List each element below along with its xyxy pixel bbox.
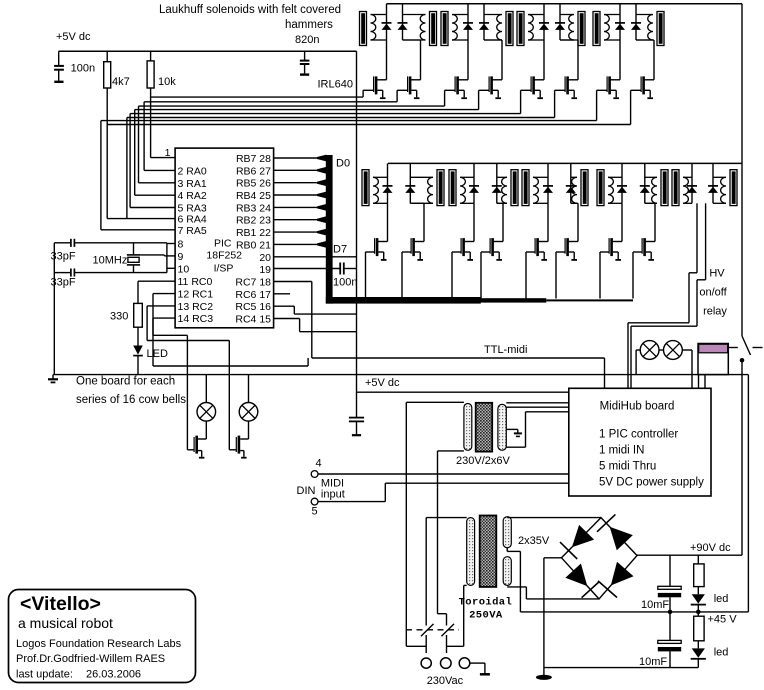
svg-text:IRL640: IRL640	[318, 79, 353, 91]
svg-text:5: 5	[312, 506, 318, 518]
svg-text:One board for each: One board for each	[76, 376, 175, 388]
solenoid unit 1 row 2 - right coil	[428, 177, 433, 203]
relay switch blade	[742, 336, 751, 355]
svg-text:7 RA5: 7 RA5	[178, 225, 207, 237]
wire row2 unit 1 left drop	[387, 203, 389, 241]
svg-text:3 RA1: 3 RA1	[178, 178, 207, 190]
diode bridge bottom-right	[611, 562, 634, 586]
svg-text:RB1 22: RB1 22	[236, 227, 271, 239]
wire pin20 VDD to +5V	[274, 256, 357, 258]
wire RB0 pin 21 to data bus	[274, 243, 318, 245]
svg-text:20: 20	[259, 252, 271, 264]
svg-text:1 PIC controller: 1 PIC controller	[599, 429, 678, 441]
switch coupling dashes	[406, 629, 459, 631]
wire T2 primary bottom	[464, 584, 467, 586]
wire unit 2 left drop	[467, 40, 469, 80]
solenoid pair unit 1 row 1 - left core bar	[360, 12, 367, 46]
wire unit 4 right drop	[636, 39, 654, 41]
svg-text:TTL-midi: TTL-midi	[484, 344, 527, 356]
svg-text:DIN: DIN	[297, 485, 316, 497]
transistor row2 Q10 IRL640	[414, 241, 424, 243]
IC U1 PIC 18F252 body	[175, 148, 274, 328]
resistor led dropper lower	[697, 612, 699, 616]
wire unit 3 left drop	[543, 40, 545, 80]
wire +90V rail	[637, 554, 742, 556]
svg-text:RB5 26: RB5 26	[236, 178, 271, 190]
wire TTL-midi line	[312, 357, 605, 359]
transistor row2 Q11 IRL640	[464, 241, 474, 243]
wire riser pin5	[129, 114, 131, 208]
wire switch to +90V	[741, 360, 743, 555]
connector DIN pin 4	[311, 471, 318, 478]
svg-text:10k: 10k	[158, 76, 176, 88]
node mid rail at led	[696, 610, 701, 615]
solenoid pair unit 2 row 1 - right core bar	[506, 12, 513, 46]
svg-text:5 midi Thru: 5 midi Thru	[599, 461, 656, 473]
wire bottom return	[544, 667, 698, 669]
wire unit 1 right drop	[403, 39, 421, 41]
svg-text:2x35V: 2x35V	[518, 535, 550, 547]
solenoid pair unit 3 row 1 - left core bar	[517, 12, 524, 46]
flyback diode row2 unit 5 right	[712, 163, 714, 203]
flyback diode row2 unit 3 right	[570, 163, 572, 203]
svg-text:RC5 16: RC5 16	[235, 301, 271, 313]
diode bridge top-left	[572, 525, 594, 547]
solenoid pair unit 4 row 1 - right core bar	[657, 12, 664, 46]
svg-text:Laukhuff solenoids with felt c: Laukhuff solenoids with felt covered	[159, 4, 341, 16]
crystal feedback box top edge with 33pF cap	[54, 242, 70, 244]
solenoid unit 3 row 1 - right coil	[569, 15, 574, 41]
bridge rectifier diamond	[562, 518, 638, 599]
svg-text:Prof.Dr.Godfried-Willem RAES: Prof.Dr.Godfried-Willem RAES	[16, 653, 165, 665]
connector mains N	[441, 658, 452, 669]
ground T1 center tap	[506, 428, 518, 430]
crystal box right edge	[166, 243, 168, 273]
svg-text:PIC: PIC	[214, 238, 232, 250]
svg-text:LED: LED	[147, 348, 168, 360]
solenoid unit 5 row 2 - left coil	[683, 177, 688, 203]
svg-text:series of 16 cow bells: series of 16 cow bells	[76, 394, 186, 406]
svg-text:10: 10	[178, 263, 190, 275]
svg-text:RB2 23: RB2 23	[236, 215, 271, 227]
wire DIN4 to MidiHub	[318, 473, 569, 475]
wire pin1 stub	[151, 157, 176, 159]
flyback diode row2 unit 4 right	[644, 163, 646, 203]
capacitor 10mF lower	[669, 612, 671, 641]
wire T2 primary top	[426, 517, 467, 519]
svg-text:820n: 820n	[295, 34, 319, 46]
LED D1	[133, 346, 143, 355]
solenoid pair unit 3 row 2 - left core bar	[522, 170, 529, 206]
svg-text:hammers: hammers	[285, 19, 333, 31]
solenoid unit 3 row 2 - right coil	[572, 177, 577, 203]
module MidiHub board	[569, 388, 711, 496]
wire gate line 8 (PIC port to row-1 gate)	[107, 124, 630, 126]
capacitor 820n	[304, 51, 306, 60]
solenoid pair unit 3 row 2 - right core bar	[581, 170, 588, 206]
wire +5V to MidiHub	[357, 391, 569, 393]
svg-text:HV: HV	[709, 268, 725, 280]
transistor lamp driver Q2	[248, 421, 250, 439]
wire between HV lamps	[659, 349, 664, 351]
wire DIN5 to MidiHub	[318, 501, 385, 503]
solenoid unit 4 row 2 - right coil	[652, 177, 657, 203]
svg-text:RC7 18: RC7 18	[235, 277, 271, 289]
transformer T1 secondary winding	[498, 404, 506, 450]
wire ground line to MidiHub	[698, 375, 700, 389]
wire RB7 pin 28 to data bus	[274, 157, 318, 159]
wire T2 secondary top to bridge	[507, 517, 601, 519]
flyback diode row2 unit 1 right	[409, 163, 411, 203]
svg-text:+5V dc: +5V dc	[365, 377, 400, 389]
wire relay coil drive left	[696, 203, 698, 272]
wire pin16 RC5	[274, 305, 295, 307]
wire pin18 RC7 RX to TTL-midi	[274, 281, 312, 283]
ground (top left)	[54, 81, 63, 83]
svg-text:230V/2x6V: 230V/2x6V	[456, 455, 510, 467]
solenoid pair unit 1 row 1 - right core bar	[430, 12, 437, 46]
svg-text:250VA: 250VA	[469, 610, 503, 622]
wire RB4 pin 25 to data bus	[274, 194, 318, 196]
capacitor 10mF upper	[669, 555, 671, 586]
wire mains 2 riser	[446, 614, 448, 626]
wire row2 unit 3 right drop	[571, 202, 578, 204]
wire crystal to pin9	[140, 254, 164, 256]
svg-text:10mF: 10mF	[641, 599, 669, 611]
solenoid unit 4 row 2 - left coil	[608, 177, 613, 203]
wire T1 primary bottom	[438, 450, 464, 452]
wire row2 unit 4 left drop	[621, 203, 623, 241]
wire pin19 with 100n cap	[274, 268, 341, 270]
svg-text:18F252: 18F252	[206, 250, 242, 262]
wire row2 unit 2 left drop	[473, 203, 475, 241]
solenoid pair unit 2 row 2 - right core bar	[511, 170, 518, 206]
svg-text:Toroidal: Toroidal	[459, 597, 513, 609]
wire gate line 7 (PIC port to row-1 gate)	[101, 120, 597, 122]
flyback diode row2 unit 1 left	[387, 163, 389, 203]
flyback diode row2 unit 2 left	[473, 163, 475, 203]
wire resistor to LED	[137, 327, 139, 345]
wire RB3 pin 24 to data bus	[274, 206, 318, 208]
svg-text:+45 V: +45 V	[708, 614, 738, 626]
svg-text:10mF: 10mF	[639, 656, 667, 668]
solenoid unit 1 row 1 - left coil	[371, 15, 376, 41]
svg-text:1: 1	[165, 147, 171, 159]
svg-text:RC4 15: RC4 15	[235, 314, 271, 326]
wire HV rail row 1	[387, 3, 743, 5]
wire RB1 pin 22 to data bus	[274, 231, 318, 233]
wire riser pin2	[143, 102, 145, 171]
capacitor 100n (PIC)	[339, 263, 341, 275]
transformer T1 core	[476, 403, 493, 452]
crystal box left edge down to ground line	[53, 243, 55, 375]
wire riser pin6	[126, 118, 128, 219]
capacitor +5V decoupling	[349, 417, 364, 419]
solenoid unit 2 row 2 - left coil	[460, 177, 465, 203]
transistor row1 Q5 IRL640	[534, 79, 544, 81]
wire earth	[470, 662, 485, 664]
wire relay coil drive right	[705, 203, 707, 279]
wire riser pin3	[138, 106, 140, 183]
wire pin12 RC1 to lamp driver 1 gate	[153, 293, 175, 295]
solenoid unit 4 row 1 - left coil	[604, 15, 609, 41]
svg-text:I/SP: I/SP	[214, 263, 234, 275]
solenoid unit 5 row 2 - right coil	[721, 177, 726, 203]
LED indicator upper	[697, 587, 699, 595]
svg-text:input: input	[321, 489, 345, 501]
svg-text:led: led	[714, 593, 729, 605]
wire riser pin4	[134, 110, 136, 196]
ground 820n	[300, 73, 309, 75]
wire unit 2 right drop	[484, 39, 502, 41]
svg-text:4: 4	[316, 458, 322, 470]
wire gate line 5 (PIC port to row-1 gate)	[130, 113, 520, 115]
wire pin17 RC6 stub	[274, 293, 290, 295]
svg-text:9: 9	[178, 251, 184, 263]
flyback diode unit 4 right	[635, 4, 637, 40]
svg-text:led: led	[714, 647, 729, 659]
wire gate line 2 (PIC port to row-1 gate)	[144, 101, 397, 103]
svg-text:5V DC power supply: 5V DC power supply	[599, 477, 704, 489]
svg-text:Logos Foundation Research Labs: Logos Foundation Research Labs	[16, 638, 182, 650]
svg-text:D0: D0	[336, 158, 350, 170]
transistor row2 Q9 IRL640	[377, 241, 387, 243]
solenoid unit 3 row 1 - left coil	[528, 15, 533, 41]
capacitor 100n (top left)	[54, 65, 64, 67]
wire pin4 stub	[135, 194, 175, 196]
transistor row1 Q6 IRL640	[568, 79, 578, 81]
node mid rail at cap	[668, 610, 673, 615]
wire T1 primary top	[406, 401, 464, 403]
solenoid pair unit 4 row 2 - right core bar	[661, 170, 668, 206]
svg-text:<Vitello>: <Vitello>	[20, 593, 101, 615]
wire row2 unit 1 right drop	[410, 202, 424, 204]
svg-text:a musical robot: a musical robot	[18, 615, 113, 631]
svg-text:11 RC0: 11 RC0	[178, 276, 213, 288]
transistor row2 Q14 IRL640	[568, 241, 578, 243]
transformer T2 toroidal primary winding	[467, 518, 475, 586]
solenoid pair unit 4 row 2 - left core bar	[597, 170, 604, 206]
transistor row1 Q2 IRL640	[410, 79, 420, 81]
wire RB6 pin 27 to data bus	[274, 169, 318, 171]
wire RB5 pin 26 to data bus	[274, 182, 318, 184]
ground +5V cap	[352, 434, 361, 436]
wire row2 unit 2 right drop	[497, 202, 503, 204]
solenoid pair unit 1 row 2 - right core bar	[437, 170, 444, 206]
title box Vitello	[9, 590, 196, 683]
wire T1 primary bottom to mains 2	[438, 613, 447, 615]
lamp indicator 1 (cow bell board)	[205, 375, 207, 403]
diode bridge top-right	[610, 527, 633, 551]
wire +5V left drop	[58, 51, 60, 65]
svg-text:2 RA0: 2 RA0	[178, 165, 207, 177]
wire gate line 6 (PIC port to row-1 gate)	[127, 117, 555, 119]
connector mains L	[421, 658, 431, 668]
svg-text:14 RC3: 14 RC3	[178, 313, 214, 325]
svg-text:1 midi IN: 1 midi IN	[599, 445, 644, 457]
wire row2 unit 4 right drop	[645, 202, 655, 204]
svg-text:12 RC1: 12 RC1	[178, 289, 214, 301]
svg-text:D7: D7	[333, 244, 347, 256]
wire pin5 stub	[130, 207, 175, 209]
transistor row2 Q13 IRL640	[538, 241, 548, 243]
wire pin6 stub	[107, 218, 175, 220]
transformer T2 secondary winding lower	[503, 557, 511, 586]
solenoid unit 3 row 2 - left coil	[533, 177, 538, 203]
wire pin11 RC0 to LED chain	[138, 280, 175, 282]
svg-text:13 RC2: 13 RC2	[178, 301, 214, 313]
wire pin14 RC3 to TTL junction	[153, 317, 175, 319]
wire LED to ground line	[137, 356, 139, 375]
wire pin15 RC4	[274, 318, 300, 320]
svg-text:4 RA2: 4 RA2	[178, 190, 207, 202]
svg-text:100n: 100n	[71, 63, 95, 75]
transformer T2 secondary winding upper	[503, 517, 511, 548]
resistor 4k7	[106, 51, 108, 62]
svg-text:100n: 100n	[333, 277, 357, 289]
svg-text:on/off: on/off	[699, 287, 727, 299]
transformer T2 core	[480, 516, 497, 587]
flyback diode row2 unit 5 left	[691, 163, 693, 203]
node relay switch	[740, 358, 745, 363]
svg-text:230Vac: 230Vac	[427, 675, 464, 687]
solenoid unit 2 row 1 - left coil	[452, 15, 457, 41]
wire pin2 stub	[144, 169, 175, 171]
switch blade mains 2	[442, 624, 455, 636]
flyback diode unit 3 left	[543, 4, 545, 40]
wire pin10 stub	[167, 267, 175, 269]
svg-text:19: 19	[259, 264, 271, 276]
lamp indicator HV 1	[640, 341, 659, 360]
flyback diode unit 4 left	[619, 4, 621, 40]
svg-text:4k7: 4k7	[112, 76, 130, 88]
wire T1 primary top to mains 1	[406, 645, 426, 647]
solenoid pair unit 2 row 1 - left core bar	[441, 12, 448, 46]
transistor row1 Q7 IRL640	[610, 79, 620, 81]
wire RB2 pin 23 to data bus	[274, 219, 318, 221]
transistor row1 Q1 IRL640	[376, 79, 386, 81]
wire T2 center tap to mid rail	[506, 548, 508, 552]
ground symbol left	[52, 375, 54, 379]
svg-text:+5V dc: +5V dc	[56, 31, 91, 43]
flyback diode row2 unit 2 right	[496, 163, 498, 203]
svg-text:6 RA4: 6 RA4	[178, 214, 207, 226]
wire riser pin7 (RA5)	[100, 121, 102, 230]
transistor row1 Q8 IRL640	[644, 79, 654, 81]
solenoid pair unit 3 row 1 - right core bar	[578, 12, 585, 46]
transistor row2 Q16 IRL640	[645, 241, 655, 243]
lamp indicator HV 2	[664, 341, 683, 360]
wire 10k to pin1 MCLR	[150, 88, 152, 158]
svg-text:10MHz: 10MHz	[93, 255, 128, 267]
wire +5V vertical trunk	[356, 51, 358, 418]
wire HV lamps right to MidiHub	[682, 349, 692, 351]
svg-text:RB7 28: RB7 28	[236, 153, 271, 165]
wire unit 4 left drop	[619, 40, 621, 80]
wire +45 feed right	[747, 375, 749, 612]
svg-text:RB6 27: RB6 27	[236, 165, 271, 177]
diode bridge bottom-left	[565, 564, 587, 587]
svg-text:33pF: 33pF	[51, 251, 76, 263]
LED indicator lower	[697, 641, 699, 649]
wire gate line 3 (PIC port to row-1 gate)	[139, 105, 445, 107]
wire mid rail (0V)	[520, 611, 748, 613]
wire relay bottom to MidiHub	[704, 375, 706, 389]
wire pin7 stub	[101, 229, 175, 231]
svg-text:relay: relay	[703, 306, 727, 318]
flyback diode unit 1 right	[402, 4, 404, 40]
solenoid pair unit 5 row 2 - right core bar	[730, 170, 737, 206]
solenoid pair unit 2 row 2 - left core bar	[449, 170, 456, 206]
wire T1 secondary to MidiHub	[506, 402, 569, 404]
flyback diode unit 1 left	[386, 4, 388, 40]
data bus D0-D7 vertical (thick)	[326, 155, 333, 304]
wire unit 3 right drop	[560, 39, 578, 41]
wire TTL-midi drop to MidiHub	[604, 358, 606, 388]
svg-text:330: 330	[110, 311, 128, 323]
flyback diode row2 unit 3 left	[547, 163, 549, 203]
wire HV rail row 2	[388, 162, 742, 164]
relay actuator dashes	[728, 347, 738, 349]
connector DIN pin 5	[311, 498, 318, 505]
wire T2 secondary bottom to bridge	[507, 586, 526, 588]
transistor row1 Q4 IRL640	[492, 79, 502, 81]
resistor 10k	[150, 51, 152, 61]
resistor led dropper upper	[697, 555, 699, 564]
connector mains earth	[459, 658, 470, 669]
transistor row2 Q12 IRL640	[493, 241, 503, 243]
wire pin8 stub	[167, 243, 175, 245]
wire pin13 RC2 to lamp driver 2 gate	[147, 305, 175, 307]
svg-text:26.03.2006: 26.03.2006	[86, 669, 141, 681]
ground main (ellipse)	[536, 675, 552, 680]
crystal box bottom edge with 33pF cap	[74, 272, 166, 274]
solenoid pair unit 1 row 2 - left core bar	[362, 170, 369, 206]
wire unit 1 left drop	[386, 40, 388, 80]
ground rail (long horizontal)	[53, 374, 748, 376]
solenoid unit 4 row 1 - right coil	[648, 15, 653, 41]
svg-text:33pF: 33pF	[51, 277, 76, 289]
wire +5V rail	[59, 50, 357, 52]
flyback diode unit 2 left	[467, 4, 469, 40]
flyback diode row2 unit 4 left	[621, 163, 623, 203]
data bus D0-D7 horizontal (thick, tapering)	[326, 297, 481, 304]
svg-text:last update:: last update:	[16, 669, 73, 681]
svg-text:8: 8	[178, 239, 184, 251]
flyback diode unit 2 right	[483, 4, 485, 40]
transistor row1 Q3 IRL640	[458, 79, 468, 81]
transistor row2 Q15 IRL640	[612, 241, 622, 243]
relay K1 body	[698, 344, 728, 375]
solenoid unit 2 row 2 - right coil	[502, 177, 507, 203]
wire gate line 4 (PIC port to row-1 gate)	[135, 109, 479, 111]
wire HV lamps left	[636, 349, 640, 351]
solenoid pair unit 5 row 2 - left core bar	[672, 170, 679, 206]
wire gate line 1 (PIC port to row-1 gate)	[151, 96, 364, 98]
wire row2 unit 3 left drop	[547, 203, 549, 241]
transformer T1 230V/2x6V primary winding	[464, 404, 472, 451]
flyback diode unit 3 right	[559, 4, 561, 40]
svg-text:MidiHub board: MidiHub board	[600, 401, 675, 413]
switch blade mains 1	[421, 624, 434, 636]
svg-text:+90V dc: +90V dc	[690, 542, 731, 554]
lamp indicator 2 (cow bell board)	[248, 375, 250, 403]
svg-text:RB4 25: RB4 25	[236, 190, 271, 202]
resistor 330	[134, 303, 143, 327]
svg-text:RC6 17: RC6 17	[235, 289, 271, 301]
svg-text:RB3 24: RB3 24	[236, 202, 271, 214]
transistor lamp driver Q1	[205, 421, 207, 439]
